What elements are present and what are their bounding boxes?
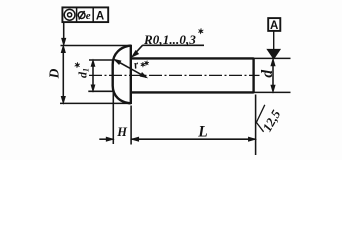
diameter symbol of tolerance value [78, 12, 85, 19]
dimension line d (vertical, right) [272, 61, 274, 91]
shank bottom extension line (right) [255, 91, 291, 93]
asterisks of r label [141, 62, 146, 67]
head bottom extension line [60, 102, 131, 104]
r** radius leader line [115, 60, 146, 77]
svg-text:A: A [270, 20, 278, 32]
L left arrowhead (pointing left) [132, 137, 139, 141]
d1 bottom arrowhead [91, 85, 95, 91]
svg-text:d: d [259, 70, 276, 78]
d1 top extension line [89, 59, 114, 61]
D top arrowhead (up) [61, 46, 65, 53]
H left arrowhead (pointing right) [106, 137, 113, 141]
dimension line L [132, 138, 256, 140]
svg-text:L: L [197, 124, 207, 141]
rivet head flat face [130, 45, 132, 104]
d top arrowhead (up) [271, 59, 275, 66]
shank end face [252, 58, 254, 94]
svg-text:A: A [96, 10, 104, 22]
R0,1...0,3 leader slant [133, 45, 142, 55]
svg-text:D: D [46, 68, 61, 79]
r** leader arrowhead at axis [140, 73, 147, 78]
svg-text:e: e [86, 10, 91, 22]
svg-text:d1: d1 [76, 68, 91, 78]
svg-text:R0,1...0,3: R0,1...0,3 [143, 32, 196, 47]
H right / L left extension line [130, 106, 132, 145]
head top extension line [61, 45, 131, 47]
tolerance frame leader arrowhead (down onto extension line) [62, 38, 66, 45]
d1 top arrowhead [91, 60, 95, 66]
datum A triangle (filled) [267, 49, 280, 59]
tolerance feature control frame [62, 7, 108, 22]
H outside arrow tail (left) [99, 138, 112, 140]
shank bottom line [132, 91, 254, 93]
svg-text:H: H [116, 125, 128, 139]
R0,1...0,3 leader arrowhead [132, 51, 139, 57]
R0,1...0,3 leader shelf [142, 44, 204, 46]
L right extension line [255, 95, 257, 156]
tolerance frame leader line [63, 22, 65, 40]
d1 bottom extension line [88, 90, 113, 92]
datum stem [273, 31, 275, 50]
L right arrowhead (pointing right) [249, 137, 256, 141]
dimension line d1 (vertical) [92, 63, 94, 89]
concentricity symbol [64, 9, 75, 20]
datum A box [268, 18, 280, 31]
shank top line [132, 57, 254, 59]
asterisk of d1 label [75, 62, 80, 68]
D bottom arrowhead (down) [61, 96, 65, 103]
roughness mark legs [256, 105, 264, 132]
shank top extension line (right) [255, 57, 291, 59]
axis centerline (dash-dot) [89, 74, 260, 76]
dimension line D (vertical, left) [62, 49, 64, 101]
asterisk of R0,1...0,3 note [198, 28, 203, 34]
r** leader arrowhead at sphere surface [114, 60, 121, 65]
svg-text:12,5: 12,5 [260, 107, 284, 134]
d bottom arrowhead (down) [271, 85, 275, 92]
rivet head outline (spherical pan head profile) [113, 46, 131, 104]
H left extension line [112, 90, 114, 144]
